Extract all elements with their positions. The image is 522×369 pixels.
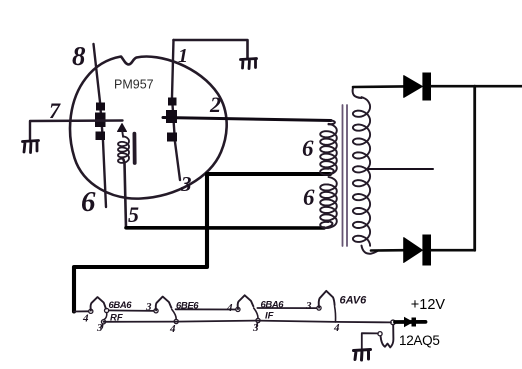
svg-text:3: 3 — [252, 322, 259, 334]
transformer primary winding upper — [320, 124, 337, 175]
heater V5 (6AV6) dome — [319, 291, 335, 308]
transformer core — [343, 105, 348, 246]
svg-text:6BA6: 6BA6 — [109, 300, 133, 311]
grid blob right 1 — [168, 98, 177, 106]
ground (bottom) — [354, 350, 371, 361]
heater V2 drop to bottom rail — [102, 313, 107, 328]
svg-text:8: 8 — [72, 41, 86, 71]
heater chain top rail — [74, 308, 317, 312]
svg-text:6: 6 — [303, 185, 315, 210]
svg-text:4: 4 — [226, 302, 233, 314]
heater chain bottom rail — [104, 321, 392, 323]
heater V5 drop to bottom rail — [334, 307, 337, 322]
svg-text:1: 1 — [178, 45, 188, 67]
secondary center tap wire — [369, 168, 434, 170]
svg-text:6AV6: 6AV6 — [340, 295, 368, 307]
wire D2 to output vertical — [431, 249, 475, 252]
svg-text:3: 3 — [305, 300, 312, 312]
svg-text:3: 3 — [145, 301, 152, 313]
grid blob right 3 — [167, 133, 177, 142]
transformer primary lower-to-wire connector — [325, 221, 333, 228]
wire pin1 to top ground — [174, 40, 248, 58]
wire rectifier output vertical — [473, 86, 476, 250]
grid blob left 2 — [95, 113, 106, 128]
svg-text:RF: RF — [110, 313, 123, 324]
tube V1 envelope (PM957) — [70, 57, 227, 199]
svg-text:4: 4 — [82, 313, 89, 325]
transformer primary upper-to-tap connector — [329, 168, 334, 174]
svg-text:3: 3 — [180, 172, 192, 196]
pin 8 lead (left internal electrode line) — [94, 44, 107, 207]
svg-text:6: 6 — [81, 186, 96, 218]
svg-text:PM957: PM957 — [114, 78, 154, 92]
svg-text:+12V: +12V — [411, 297, 446, 313]
transformer primary top connector — [329, 121, 335, 125]
heater V3 drop to bottom rail — [172, 309, 176, 319]
svg-text:3: 3 — [96, 322, 103, 334]
transformer secondary top connector — [353, 88, 362, 99]
heater V2 (6BA6 RF) dome — [91, 297, 106, 311]
grid blob right 2 — [166, 110, 177, 123]
heater V6 (12AQ5) hanging dome — [381, 325, 394, 348]
wire pin7 to left ground — [30, 121, 123, 141]
pin 1 lead (right internal electrode line) — [172, 40, 180, 180]
svg-text:6BE6: 6BE6 — [176, 301, 199, 312]
transformer secondary winding — [353, 97, 370, 246]
wire pin5 to transformer primary bottom — [126, 226, 324, 230]
svg-text:6BA6: 6BA6 — [261, 300, 285, 311]
wire secondary bottom to diode D2 — [371, 249, 404, 252]
diode D2 (bottom) — [404, 238, 423, 263]
heater V4 drop to bottom rail — [254, 308, 258, 327]
svg-text:7: 7 — [49, 98, 61, 123]
svg-text:5: 5 — [128, 202, 139, 227]
grid blob left 3 — [96, 132, 106, 141]
svg-text:4: 4 — [169, 323, 176, 335]
transformer primary winding lower — [320, 177, 337, 228]
grid blob left 1 — [96, 103, 105, 111]
variable coil arrow (slug tuning) — [118, 124, 127, 132]
heater V4 (6BA6 IF) dome — [238, 295, 254, 309]
svg-text:4: 4 — [333, 322, 340, 334]
pin 5 lead from coil — [124, 160, 127, 228]
coil L1 (oscillator coil inside tube) — [121, 131, 124, 137]
svg-text:2: 2 — [209, 92, 221, 117]
svg-text:6: 6 — [302, 136, 314, 161]
wire pin2 to transformer primary top — [163, 118, 331, 121]
coil core bar — [132, 134, 136, 163]
wire transformer primary center tap — [74, 174, 330, 312]
node at +12V feed — [391, 320, 396, 325]
wire secondary top to diode D1 — [353, 85, 404, 88]
svg-text:IF: IF — [265, 311, 274, 322]
svg-text:12AQ5: 12AQ5 — [399, 333, 440, 348]
ground (top right) — [241, 59, 257, 69]
heater V3 (6BE6) dome — [156, 297, 172, 311]
transformer secondary bottom connector — [362, 246, 379, 254]
+12V feed wire with arrow — [395, 320, 426, 324]
diode D1 (top) — [404, 76, 423, 98]
ground (left) — [23, 141, 39, 153]
wire D1 to right edge — [431, 85, 522, 88]
wire 12AQ5 to ground — [362, 333, 378, 349]
